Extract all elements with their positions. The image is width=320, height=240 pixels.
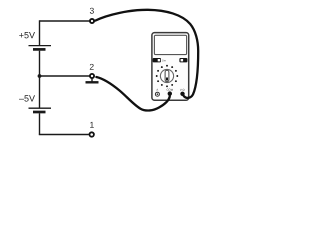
svg-text:–5V: –5V [19,93,35,103]
svg-text:1: 1 [90,120,95,130]
node terminal 1 [90,132,94,136]
rotary dial tick dots [156,65,179,88]
wire bottom horizontal [39,134,89,136]
multimeter left button [153,58,161,62]
multimeter right button [179,58,187,62]
rotary dial pointer tip [166,77,168,80]
svg-text:V Ω: V Ω [180,88,185,92]
svg-text:A: A [156,88,158,92]
svg-text:2: 2 [89,62,94,72]
wire top rail horizontal [40,20,90,22]
battery B2 -5V thin plate [29,107,52,109]
V-ohm jack [180,92,184,96]
multimeter display window [154,35,186,54]
node terminal 2 [90,74,94,78]
rotary dial circle [160,69,173,82]
node terminal 3 [90,19,94,23]
wire middle horizontal [40,75,90,77]
rotary dial knob [165,70,169,81]
svg-text:3: 3 [90,6,95,16]
svg-text:COM: COM [167,88,174,92]
wire left rail upper segment [39,20,41,45]
battery B1 +5V thin plate [29,45,52,47]
ground at node 2 stub [91,79,93,82]
probe wire node2 to COM jack [96,77,169,111]
svg-text:+5V: +5V [19,30,35,40]
multimeter M1 body [152,33,189,101]
battery B1 +5V thick plate [33,48,46,51]
COM jack [168,91,172,95]
battery B2 -5V thick plate [33,111,46,114]
wire left rail middle segment [39,51,41,108]
ground at node 2 bar [86,81,99,83]
svg-text:Dm: Dm [162,58,166,62]
node junction dot [38,74,42,78]
left jack [155,92,159,96]
probe wire node3 to V jack [95,10,198,98]
wire left rail lower segment [39,113,41,134]
